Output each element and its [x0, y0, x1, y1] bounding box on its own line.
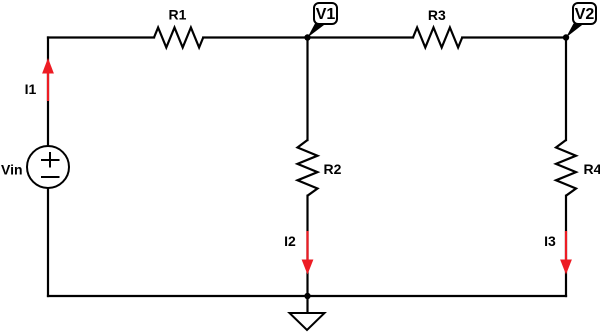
resistor R2 [298, 140, 318, 196]
wire: top-left corner to R1 left lead [48, 36, 154, 38]
ground [290, 313, 325, 330]
svg-text:R2: R2 [324, 161, 342, 177]
svg-text:I2: I2 [284, 233, 296, 249]
junction dot at node V1 [304, 34, 310, 40]
wire: ground stub [306, 296, 308, 313]
svg-text:Vin: Vin [1, 162, 23, 178]
resistor R3 [413, 28, 462, 48]
current arrow I1 (red, upward) [42, 58, 54, 101]
junction dot at ground node [304, 293, 310, 299]
wire: right rail, node V2 down to R4 [565, 38, 567, 141]
wire: R4 bottom lead down to bottom-right corner [565, 196, 567, 296]
svg-text:R1: R1 [169, 7, 187, 23]
svg-text:R3: R3 [428, 7, 446, 23]
svg-text:I1: I1 [25, 81, 37, 97]
wire: R3 right lead to top-right corner (node V2) [462, 36, 566, 38]
wire: left rail, Vin negative terminal down to bottom-left corner [47, 188, 49, 296]
current arrow I2 (red, downward) [302, 231, 314, 275]
voltage source Vin [27, 146, 69, 188]
resistor R1 [154, 28, 203, 48]
svg-text:I3: I3 [544, 233, 556, 249]
node V2 callout box [573, 3, 596, 24]
svg-text:R4: R4 [584, 161, 600, 177]
wire: R2 bottom lead down to bottom rail [306, 196, 308, 296]
svg-text:V1: V1 [316, 6, 336, 23]
wire: bottom rail from bottom-left corner to bottom-right corner [48, 295, 566, 297]
resistor R4 [556, 140, 576, 196]
node V2 callout tail [566, 24, 584, 38]
svg-text:V2: V2 [575, 6, 595, 23]
wire: left rail, Vin positive terminal up to top-left corner [47, 38, 49, 147]
node V1 callout tail [308, 24, 327, 38]
wire: middle rail, node V1 down to R2 [306, 38, 308, 141]
wire: R1 right lead through node V1 to R3 left lead [203, 36, 413, 38]
current arrow I3 (red, downward) [560, 231, 572, 275]
junction dot at node V2 [563, 34, 569, 40]
node V1 callout box [314, 3, 337, 24]
